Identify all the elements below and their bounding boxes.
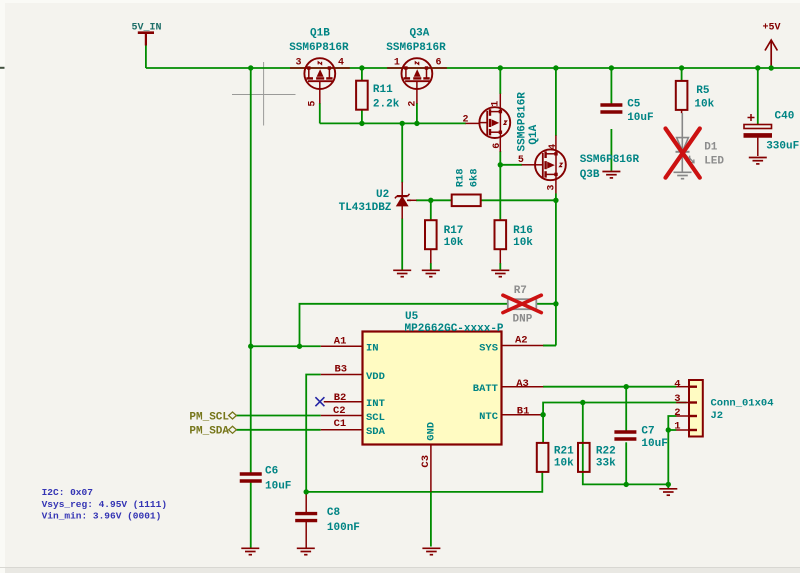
svg-text:C6: C6 <box>265 466 278 478</box>
power flag 5V_IN <box>138 33 154 46</box>
pin Q3B.3 <box>555 179 557 194</box>
resistor R11 body <box>356 81 368 110</box>
ground below C8 <box>297 548 315 554</box>
pin Q3B.4 <box>555 135 557 150</box>
svg-text:10uF: 10uF <box>641 438 667 450</box>
svg-text:NTC: NTC <box>479 411 499 423</box>
wire: lower gate bus y=123.4 <box>320 122 466 124</box>
svg-text:B3: B3 <box>335 364 348 376</box>
wire: R18 right to Q3B node <box>480 199 556 201</box>
wire: Q3A pin2 down <box>416 103 418 123</box>
pin J2.1 <box>676 429 689 431</box>
pin J2.2 <box>676 415 689 417</box>
node bus/Q1A1 <box>498 65 503 70</box>
node R22 top <box>580 400 585 405</box>
svg-text:SYS: SYS <box>479 343 498 355</box>
wire: SDA net <box>236 429 320 431</box>
wire: R11 top lead <box>361 68 363 82</box>
svg-text:R18: R18 <box>455 168 467 187</box>
pin Q1B.5 <box>319 89 321 104</box>
node bus/+5V <box>769 65 774 70</box>
wire: J2 pin2 corner <box>668 416 676 430</box>
node ref/R17 <box>428 198 433 203</box>
ground below C5 <box>602 172 620 178</box>
node gnd J2 <box>666 482 671 487</box>
svg-text:2: 2 <box>408 101 419 107</box>
resistor R16 body <box>495 220 507 249</box>
svg-text:LED: LED <box>704 156 724 168</box>
transistor Q3A <box>402 58 433 89</box>
svg-text:6: 6 <box>492 143 503 149</box>
node bus/C5 <box>609 65 614 70</box>
svg-text:3: 3 <box>296 58 302 69</box>
svg-text:3: 3 <box>674 393 680 405</box>
svg-text:VDD: VDD <box>366 371 385 383</box>
svg-text:Q3A: Q3A <box>410 28 430 40</box>
svg-text:U5: U5 <box>405 311 419 323</box>
node y123/U2 <box>400 121 405 126</box>
svg-text:+5V: +5V <box>763 23 781 34</box>
wire: R5 top lead <box>681 68 683 82</box>
node C7 bottom <box>624 482 629 487</box>
node J2 pin1 <box>666 427 671 432</box>
pin Q1B.4 <box>335 67 350 69</box>
node bus/C40 <box>755 65 760 70</box>
svg-text:1: 1 <box>674 420 680 432</box>
svg-text:10uF: 10uF <box>265 481 291 493</box>
svg-text:SCL: SCL <box>366 412 385 424</box>
node bus/Q3B4 <box>553 65 558 70</box>
power symbol +5V <box>765 40 777 68</box>
svg-text:DNP: DNP <box>513 313 533 325</box>
wire: U2 ref to R18 <box>416 199 452 201</box>
svg-text:C3: C3 <box>420 455 432 468</box>
ground (gray, D1) <box>674 172 692 178</box>
wire: Q1A pin1 up <box>499 68 501 94</box>
svg-text:10k: 10k <box>694 98 714 110</box>
no-connect X on INT <box>315 397 324 406</box>
svg-text:J2: J2 <box>711 410 724 422</box>
svg-text:GND: GND <box>426 422 438 441</box>
svg-text:4: 4 <box>338 58 344 69</box>
pin R5 bottom <box>681 109 683 113</box>
svg-text:B1: B1 <box>517 405 530 417</box>
wire: SCL net <box>236 415 320 417</box>
svg-text:1: 1 <box>490 101 501 107</box>
edge tick left <box>0 67 5 69</box>
pin U2 ref <box>407 199 417 201</box>
svg-text:6k8: 6k8 <box>469 168 481 187</box>
pin J2.4 <box>676 386 689 388</box>
DNP cross R7 <box>503 295 541 312</box>
resistor R7 (DNP, gray) <box>508 299 537 309</box>
node y123/R11 <box>359 121 364 126</box>
svg-text:C5: C5 <box>627 98 641 110</box>
pin Q3A.2 <box>416 89 418 104</box>
wire: top bus <box>146 67 800 69</box>
svg-text:D1: D1 <box>704 141 718 153</box>
ground below C40 <box>749 158 767 164</box>
node R7 right <box>553 301 558 306</box>
ground below R16 <box>491 270 509 276</box>
pin Q1A.2 <box>466 122 481 124</box>
pin Q1B.3 <box>290 67 305 69</box>
node gate <box>498 162 503 167</box>
resistor R21 body <box>537 443 549 472</box>
node y123/Q3A2 <box>414 121 419 126</box>
wire: IN net <box>251 345 321 347</box>
svg-text:10k: 10k <box>554 457 574 469</box>
resistor R22 body <box>578 443 590 472</box>
capacitor C7 <box>614 432 636 439</box>
wire: J2 pin1 stub link <box>668 429 676 431</box>
wire: R21 top lead <box>542 415 544 443</box>
wire: U2 anode to gnd <box>401 219 403 270</box>
svg-text:A2: A2 <box>515 335 528 347</box>
wire: C5 bottom to gnd <box>610 129 612 171</box>
wire: C7 bottom lead <box>625 442 627 484</box>
svg-text:6: 6 <box>436 58 442 69</box>
wire: R17 bottom to gnd <box>430 263 432 270</box>
pin U5 SCL <box>321 415 363 417</box>
svg-text:Q1A: Q1A <box>528 124 540 144</box>
wire: R17 top lead <box>430 200 432 220</box>
wire: SYS stub green <box>543 345 556 347</box>
pin U5 IN <box>321 345 363 347</box>
transistor Q3B <box>535 149 566 180</box>
svg-text:R5: R5 <box>696 85 710 97</box>
cursor crosshair <box>232 62 296 126</box>
wire: gate node to Q3B gate <box>500 164 522 166</box>
ground below R17 <box>422 270 440 276</box>
transistor Q1A <box>479 107 510 138</box>
wire: down to U2 <box>401 123 403 182</box>
hierarchical label diamond PM_SDA <box>229 426 237 433</box>
svg-text:R22: R22 <box>596 446 616 458</box>
pin U5 SDA <box>321 429 363 431</box>
DNP cross D1 <box>666 129 700 178</box>
PIN STUBS (red) <box>290 68 689 492</box>
node VDD/C8 <box>304 489 309 494</box>
node bus/R11 <box>359 65 364 70</box>
diode D1 LED (DNP, gray) <box>676 113 695 172</box>
wire: Q3B pin3 down to SYS corner <box>555 193 557 345</box>
wire: gate node down to R16 <box>499 165 501 221</box>
svg-text:SSM6P816R: SSM6P816R <box>386 42 446 54</box>
pin U5 VDD <box>321 374 363 376</box>
svg-text:C8: C8 <box>327 507 341 519</box>
node bus/R5 <box>679 65 684 70</box>
pin U5 BATT <box>502 386 544 388</box>
wire: vertical x=250.75 bus to C6 <box>250 68 252 474</box>
wire: C3 gnd pin down <box>430 492 432 547</box>
svg-text:Q1B: Q1B <box>310 28 330 40</box>
svg-text:10uF: 10uF <box>627 112 653 124</box>
svg-text:10k: 10k <box>444 237 464 249</box>
svg-text:SSM6P816R: SSM6P816R <box>580 154 640 166</box>
svg-text:B2: B2 <box>334 392 347 404</box>
svg-text:SSM6P816R: SSM6P816R <box>289 42 349 54</box>
capacitor C5 <box>600 105 622 112</box>
wire: R16 bottom to gnd <box>499 263 501 270</box>
wire: C40 top lead <box>757 68 759 124</box>
svg-text:5: 5 <box>518 155 524 166</box>
transistor Q1B <box>304 58 335 89</box>
ground below U2 <box>393 270 411 276</box>
svg-text:R17: R17 <box>444 225 464 237</box>
node bus/x250 <box>248 65 253 70</box>
svg-text:2: 2 <box>463 114 469 125</box>
resistor R18 body <box>452 195 481 207</box>
connector J2 body <box>689 380 703 437</box>
svg-text:IN: IN <box>366 343 379 355</box>
svg-text:330uF: 330uF <box>766 141 799 153</box>
wire: VDD/C8 horizontal to R21 <box>306 473 542 492</box>
capacitor C8 <box>295 492 317 548</box>
svg-text:R16: R16 <box>513 225 533 237</box>
svg-text:R21: R21 <box>554 446 574 458</box>
pin Q3A.1 <box>387 67 402 69</box>
svg-text:TL431DBZ: TL431DBZ <box>339 202 392 214</box>
ground below C6 <box>241 548 259 554</box>
svg-text:C7: C7 <box>641 425 654 437</box>
svg-text:Q3B: Q3B <box>580 169 600 181</box>
wire: BATT net <box>543 386 676 388</box>
pin R17 bottom <box>430 249 432 264</box>
ground below J2 <box>659 489 677 495</box>
wire: SYS corner to pin <box>543 345 556 347</box>
wire: gnd bus under R22/C7 <box>583 442 669 484</box>
pin U2 cathode <box>401 182 403 196</box>
pin Q1A.1 <box>499 94 501 109</box>
pin U5 GND <box>430 445 432 492</box>
wire: Q1B pin5 down <box>319 103 321 123</box>
node C7 top <box>624 384 629 389</box>
svg-text:A3: A3 <box>516 378 529 390</box>
svg-text:1: 1 <box>394 58 400 69</box>
wire: C7 top lead <box>625 387 627 431</box>
svg-text:R11: R11 <box>373 84 393 96</box>
svg-text:MP2662GC-xxxx-P: MP2662GC-xxxx-P <box>405 323 504 335</box>
pin Q1A.6 <box>499 137 501 152</box>
wire: 5V_IN drop <box>145 45 147 68</box>
capacitor C6 <box>240 474 262 481</box>
svg-text:A1: A1 <box>334 336 347 348</box>
node Q3B3 <box>553 198 558 203</box>
svg-text:5V_IN: 5V_IN <box>132 23 162 34</box>
svg-text:BATT: BATT <box>473 383 498 395</box>
pin U5 NTC <box>502 414 544 416</box>
pin Q3A.6 <box>432 67 447 69</box>
pin J2.3 <box>676 402 689 404</box>
svg-text:Conn_01x04: Conn_01x04 <box>711 398 774 410</box>
svg-text:Vin_min: 3.96V (0001): Vin_min: 3.96V (0001) <box>42 510 162 521</box>
hierarchical label diamond PM_SCL <box>229 412 237 419</box>
wire: R7 left run to IN corner <box>300 304 508 346</box>
wire: R7 right to node <box>536 303 556 305</box>
ground below U5 GND pin <box>422 548 440 554</box>
pin U5 SYS <box>502 345 544 347</box>
svg-text:100nF: 100nF <box>327 522 360 534</box>
node NTC <box>540 412 545 417</box>
svg-text:PM_SCL: PM_SCL <box>189 412 229 424</box>
pin U2 anode <box>401 205 403 219</box>
wire: VDD corner and down <box>306 375 321 492</box>
shunt reference U2 TL431DBZ <box>395 194 411 206</box>
svg-text:4: 4 <box>548 144 559 150</box>
svg-text:C40: C40 <box>775 110 795 122</box>
svg-text:3: 3 <box>546 185 557 191</box>
node IN/R7 <box>297 344 302 349</box>
svg-text:4: 4 <box>674 378 680 390</box>
wire: NTC node up and right to J2 pin3 <box>543 403 687 415</box>
svg-text:2.2k: 2.2k <box>373 99 400 111</box>
svg-text:C1: C1 <box>334 418 347 430</box>
wire: R11 bottom lead <box>361 109 363 123</box>
pin R16 bottom <box>499 249 501 264</box>
capacitor C40 (polarized) <box>744 114 773 156</box>
resistor R17 body <box>425 220 437 249</box>
svg-text:33k: 33k <box>596 457 616 469</box>
svg-text:INT: INT <box>366 398 385 410</box>
svg-text:U2: U2 <box>376 189 389 201</box>
TEXT LAYER <box>132 23 800 534</box>
wire: R22 top lead <box>582 403 584 443</box>
svg-text:C2: C2 <box>333 405 346 417</box>
svg-text:5: 5 <box>307 101 318 107</box>
wire: C5 top lead <box>610 68 612 104</box>
node IN/x250 <box>248 344 253 349</box>
resistor R5 body <box>676 81 688 110</box>
svg-text:I2C: 0x07: I2C: 0x07 <box>42 487 94 498</box>
svg-text:Vsys_reg: 4.95V (1111): Vsys_reg: 4.95V (1111) <box>42 499 167 510</box>
wire: C6 bottom to gnd <box>250 482 252 548</box>
pin Q3B.5 <box>522 164 537 166</box>
pin U5 INT <box>324 401 363 403</box>
svg-text:PM_SDA: PM_SDA <box>189 426 229 438</box>
IC U5 body <box>363 332 502 445</box>
svg-text:R7: R7 <box>514 285 527 297</box>
svg-text:10k: 10k <box>513 237 533 249</box>
wire: Q3B pin4 up <box>555 68 557 136</box>
wire: J2 gnd drop <box>667 430 669 484</box>
wire: Q1A pin6 down <box>499 151 501 165</box>
wire: gnd junction drop <box>667 484 669 488</box>
svg-text:2: 2 <box>674 407 680 419</box>
svg-text:SDA: SDA <box>366 426 386 438</box>
